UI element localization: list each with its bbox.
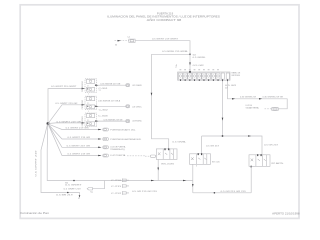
svg-text:0.5 BR 219: 0.5 BR 219 — [56, 195, 73, 197]
wire: hub up to lamp module 1 — [48, 86, 85, 123]
svg-text:0.35 GR/SW 219 GR: 0.35 GR/SW 219 GR — [263, 97, 284, 99]
wire: hub down net L2 ground — [35, 125, 80, 201]
lamp module M3 — [82, 113, 97, 130]
svg-text:0.5 GR/RT 219 GR/RT: 0.5 GR/RT 219 GR/RT — [51, 86, 78, 88]
svg-text:2 1: 2 1 — [87, 120, 89, 122]
svg-text:ENCENDED: ENCENDED — [82, 116, 84, 127]
lamp module M1 — [81, 79, 97, 96]
node A junction — [189, 53, 205, 59]
svg-text:0.5 GR/RT 219: 0.5 GR/RT 219 — [64, 188, 81, 190]
splice hub S10 — [47, 122, 50, 125]
connector ref C3 — [111, 191, 129, 195]
wire: L1 branch to connector — [93, 181, 105, 189]
wire: cluster pin 1 to rheostat — [228, 81, 288, 109]
svg-text:TRASERA IZQ.: TRASERA IZQ. — [110, 148, 126, 151]
connector C201 top — [127, 37, 135, 43]
svg-text:C-303: C-303 — [98, 116, 108, 118]
wire: hub fan row 3 — [49, 125, 102, 140]
svg-text:INT. ANTIN.: INT. ANTIN. — [271, 162, 284, 165]
wire: hub fan row 4 — [49, 125, 102, 148]
svg-text:0.5 GR/RT 219 GR: 0.5 GR/RT 219 GR — [68, 137, 92, 139]
wire: cluster pin 2 down to bus — [222, 81, 238, 136]
svg-text:APERTO 21/10/1998: APERTO 21/10/1998 — [272, 213, 300, 216]
svg-text:LUZ ENCEND.: LUZ ENCEND. — [132, 120, 142, 122]
connector K4 — [126, 120, 143, 123]
switch S1 (left) — [156, 148, 177, 165]
connector ref C2 — [111, 184, 129, 188]
svg-text:0.5 GR/RT 219 GR/RT: 0.5 GR/RT 219 GR/RT — [152, 38, 179, 40]
connector K2 — [126, 84, 143, 88]
svg-text:3: 3 — [196, 166, 197, 168]
bottom bus wire — [132, 191, 251, 194]
connector stub into S1 left — [145, 155, 156, 157]
svg-text:T16a: T16a — [176, 64, 178, 68]
svg-text:0.5 GR/BL: 0.5 GR/BL — [193, 57, 206, 59]
switch S2 (middle) — [190, 153, 221, 167]
svg-text:GUANTERA: GUANTERA — [246, 107, 260, 110]
svg-text:30: 30 — [115, 44, 117, 46]
svg-text:PUERTA DELANTERA DER.: PUERTA DELANTERA DER. — [110, 138, 142, 141]
svg-text:0.5 GR/RT: 0.5 GR/RT — [65, 185, 82, 187]
wire: module 2 output — [95, 99, 125, 111]
svg-text:0.5 GR/RT 219 GR: 0.5 GR/RT 219 GR — [67, 146, 91, 148]
svg-text:2 1: 2 1 — [87, 86, 89, 88]
svg-text:LUZ CENIC.: LUZ CENIC. — [132, 106, 143, 108]
wire: bus to switches — [202, 135, 278, 155]
svg-text:INT. LUN.: INT. LUN. — [212, 162, 220, 164]
svg-text:31: 31 — [78, 198, 80, 200]
svg-text:ILUMINACION DEL PANEL DE INSTR: ILUMINACION DEL PANEL DE INSTRUMENTOS / … — [107, 16, 220, 19]
svg-text:CIGARRERO: CIGARRERO — [81, 81, 84, 92]
svg-text:Iluminacion de Pan: Iluminacion de Pan — [20, 212, 49, 215]
wire: left riser to switch A — [151, 54, 187, 149]
wire: hub fan row 5 — [49, 125, 102, 156]
svg-text:2 1: 2 1 — [87, 103, 89, 105]
svg-text:C-2: C-2 — [127, 37, 130, 39]
svg-text:0.5 GR/RT 219: 0.5 GR/RT 219 — [35, 150, 37, 176]
svg-text:0.5 GR 219 GR 219: 0.5 GR 219 GR 219 — [221, 191, 246, 193]
svg-text:0.5 GR/RT 219 GR: 0.5 GR/RT 219 GR — [66, 128, 90, 130]
svg-text:0.5 GR 219 GR 219: 0.5 GR 219 GR 219 — [132, 191, 157, 193]
svg-text:0.35 GR/SW 219: 0.35 GR/SW 219 — [240, 97, 256, 99]
svg-text:PUERTA 219: PUERTA 219 — [157, 12, 174, 15]
svg-text:LUZ PUERTA: LUZ PUERTA — [110, 154, 126, 157]
connector K9 — [64, 188, 93, 194]
wire: hub fan row 2 — [49, 124, 102, 130]
wire: hub to lamp module 3 — [48, 121, 85, 123]
svg-text:0.5 GR/BL: 0.5 GR/BL — [172, 142, 186, 144]
svg-text:0.5 GR/RT 219 GR: 0.5 GR/RT 219 GR — [68, 154, 92, 156]
svg-text:C-211: C-211 — [111, 186, 121, 188]
wire: module 1 output — [95, 84, 125, 92]
switch S3 (right) — [249, 154, 284, 167]
svg-text:INT.LUCES: INT.LUCES — [161, 164, 175, 166]
svg-text:LUZ CIGARR.: LUZ CIGARR. — [132, 84, 142, 87]
wire: node A to cluster — [189, 54, 205, 72]
title text — [107, 12, 220, 22]
svg-text:0.5 GR/RT 219 GR: 0.5 GR/RT 219 GR — [55, 103, 78, 105]
svg-text:CENICERO: CENICERO — [82, 99, 84, 109]
lamp module M2 — [82, 96, 97, 113]
border frame — [20, 5, 299, 219]
svg-text:0.35 SW/GE 219 GE A: 0.35 SW/GE 219 GE A — [98, 99, 121, 102]
connector ref C1 — [111, 179, 129, 183]
wire: hub down net L1 — [47, 125, 193, 187]
svg-text:PUERTA DELANT. IZQ.: PUERTA DELANT. IZQ. — [110, 128, 136, 131]
svg-text:C-302: C-302 — [99, 109, 108, 111]
svg-text:0.35 SW/GE 219 GE: 0.35 SW/GE 219 GE — [100, 84, 121, 86]
svg-text:T-4a: T-4a — [90, 192, 93, 194]
instrument cluster lamp strip U1 — [176, 64, 241, 81]
svg-text:0.5 GR 219: 0.5 GR 219 — [206, 146, 219, 148]
wire: switch feed branch — [152, 51, 191, 54]
svg-text:C-210: C-210 — [111, 180, 121, 182]
wire: feed to node A — [135, 38, 190, 54]
connector K7 — [103, 146, 126, 151]
svg-text:0.5 GR: 0.5 GR — [193, 65, 205, 67]
wire: S2 down to bottom bus — [192, 164, 194, 193]
svg-text:0.35 SW/GE 219 GE: 0.35 SW/GE 219 GE — [104, 120, 124, 122]
svg-text:0.5 GR/RT 219 GR: 0.5 GR/RT 219 GR — [57, 121, 82, 123]
svg-text:0.5 GR 219: 0.5 GR 219 — [264, 145, 278, 147]
connector K5 — [103, 128, 136, 131]
connector K8 — [103, 154, 145, 157]
wire: module 3 output — [95, 116, 125, 122]
connector K6 — [103, 138, 142, 141]
wire: S1 down to splice row — [157, 159, 159, 180]
svg-text:INSTRUM.: INSTRUM. — [232, 75, 241, 77]
svg-text:0.5 GR/BL 219 GR/BL: 0.5 GR/BL 219 GR/BL — [162, 51, 188, 53]
svg-text:AÑO COMPACT 98: AÑO COMPACT 98 — [147, 19, 183, 22]
wire: hub to lamp module 2 — [49, 103, 85, 123]
connector K3 — [126, 105, 143, 109]
wire: S3 down to bottom bus — [250, 166, 252, 193]
lamp E1 rheostat — [246, 105, 279, 111]
wire: dashed battery stub top — [115, 40, 129, 47]
svg-text:C-212: C-212 — [111, 193, 121, 195]
svg-text:T.2: T.2 — [99, 90, 101, 92]
